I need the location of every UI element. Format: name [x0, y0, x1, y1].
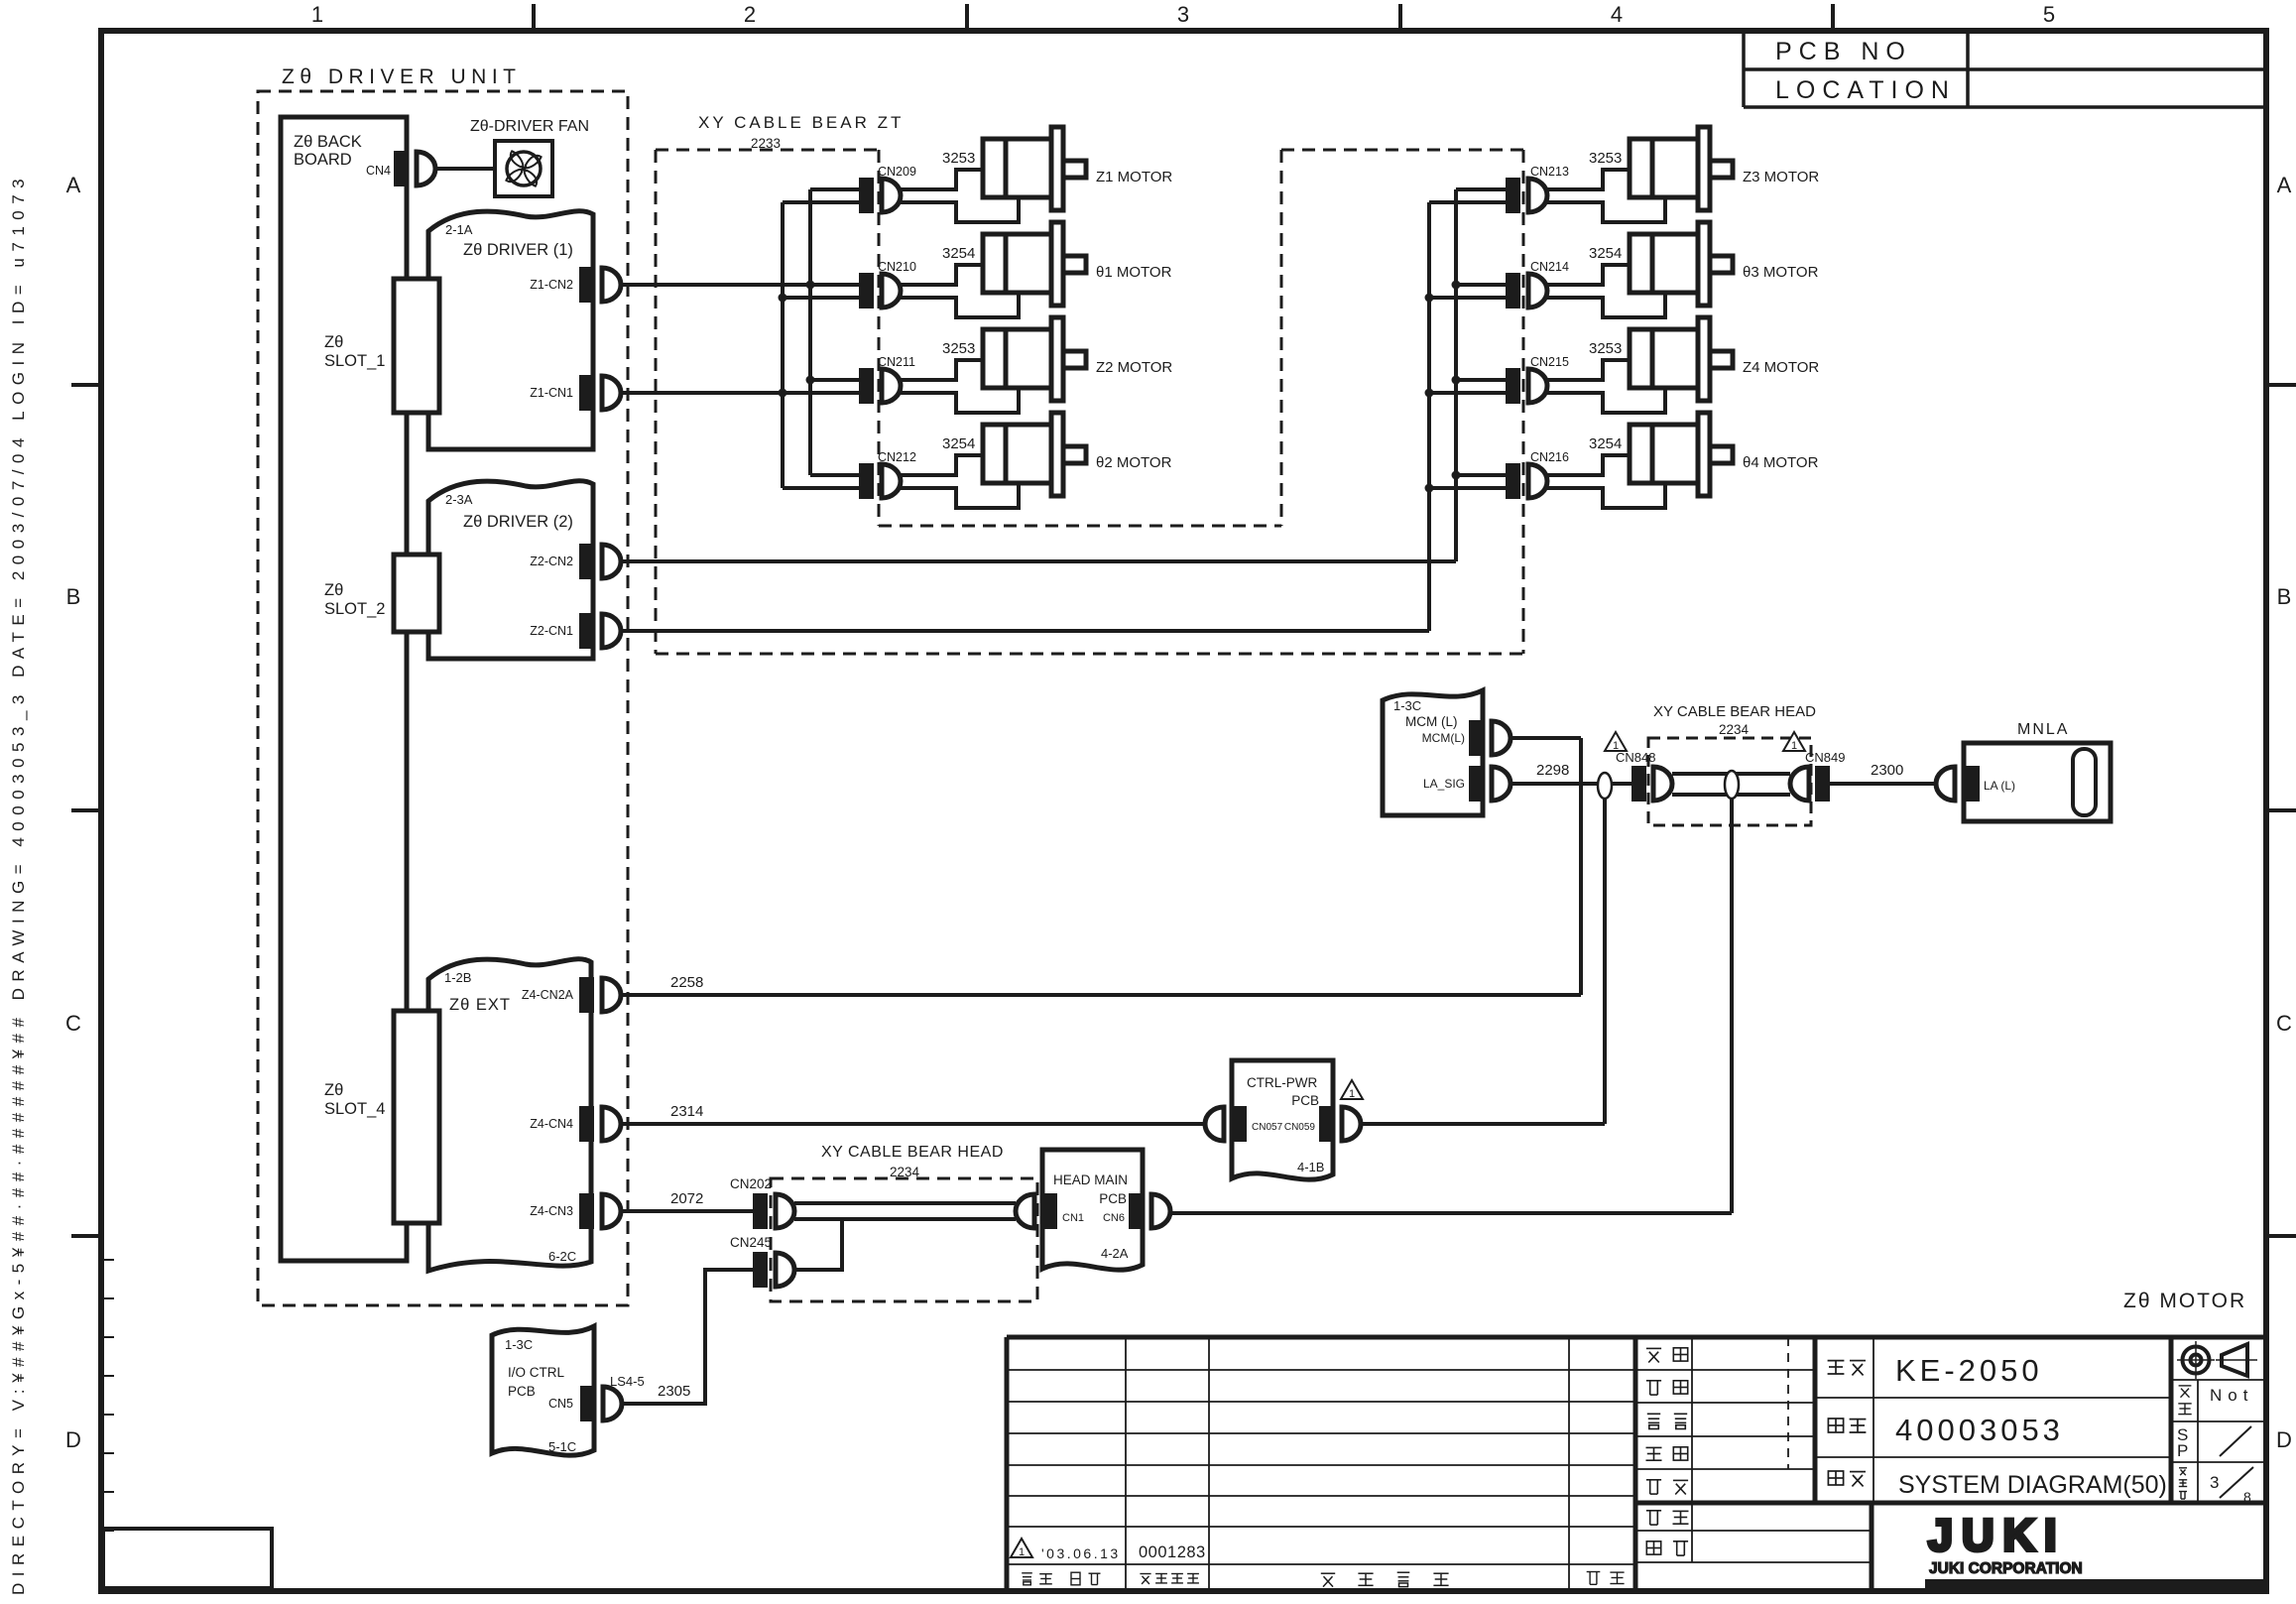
- svg-text:Z2-CN1: Z2-CN1: [530, 624, 573, 638]
- svg-text:XY CABLE BEAR ZT: XY CABLE BEAR ZT: [698, 113, 904, 132]
- svg-text:CN849: CN849: [1805, 750, 1845, 765]
- svg-text:6-2C: 6-2C: [548, 1249, 576, 1264]
- svg-text:JUKI CORPORATION: JUKI CORPORATION: [1929, 1560, 2083, 1577]
- svg-text:3254: 3254: [1589, 245, 1622, 262]
- svg-text:MNLA: MNLA: [2017, 721, 2069, 738]
- svg-text:3254: 3254: [942, 245, 975, 262]
- svg-text:CN057: CN057: [1252, 1122, 1283, 1133]
- svg-text:Zθ: Zθ: [324, 1081, 343, 1099]
- svg-text:CN1: CN1: [1062, 1212, 1084, 1224]
- svg-text:CN4: CN4: [366, 164, 391, 178]
- svg-text:CN214: CN214: [1530, 260, 1569, 274]
- svg-text:I/O CTRL: I/O CTRL: [508, 1365, 564, 1380]
- svg-text:LS4-5: LS4-5: [610, 1374, 645, 1389]
- svg-text:1-2B: 1-2B: [444, 970, 471, 985]
- svg-text:A: A: [66, 173, 81, 197]
- svg-text:Zθ BACK: Zθ BACK: [294, 133, 362, 151]
- svg-text:θ4 MOTOR: θ4 MOTOR: [1743, 454, 1819, 471]
- svg-text:CN5: CN5: [548, 1397, 573, 1411]
- svg-text:SLOT_2: SLOT_2: [324, 600, 385, 618]
- svg-text:3253: 3253: [1589, 340, 1622, 357]
- svg-text:CN848: CN848: [1616, 750, 1655, 765]
- svg-text:HEAD MAIN: HEAD MAIN: [1053, 1172, 1128, 1187]
- svg-text:1-3C: 1-3C: [1393, 698, 1421, 713]
- svg-text:8: 8: [2243, 1489, 2251, 1505]
- svg-text:40003053: 40003053: [1895, 1413, 2064, 1447]
- svg-text:θ3 MOTOR: θ3 MOTOR: [1743, 264, 1819, 281]
- svg-text:Z2 MOTOR: Z2 MOTOR: [1096, 359, 1172, 376]
- svg-text:Z4-CN3: Z4-CN3: [530, 1204, 573, 1218]
- svg-text:0001283: 0001283: [1139, 1543, 1206, 1561]
- svg-text:MCM(L): MCM(L): [1422, 731, 1465, 745]
- svg-text:3253: 3253: [942, 150, 975, 167]
- svg-text:Z4-CN4: Z4-CN4: [530, 1117, 573, 1131]
- svg-text:2: 2: [744, 2, 756, 27]
- svg-text:Zθ: Zθ: [324, 333, 343, 351]
- svg-text:3: 3: [2210, 1473, 2219, 1492]
- svg-text:'03.06.13: '03.06.13: [1041, 1545, 1121, 1561]
- svg-text:A: A: [2277, 173, 2292, 197]
- svg-text:3: 3: [1177, 2, 1189, 27]
- svg-text:2300: 2300: [1871, 762, 1903, 779]
- svg-text:CN059: CN059: [1284, 1122, 1316, 1133]
- svg-text:1: 1: [311, 2, 323, 27]
- svg-text:SLOT_1: SLOT_1: [324, 352, 385, 370]
- svg-text:2-1A: 2-1A: [445, 222, 473, 237]
- svg-text:Zθ MOTOR: Zθ MOTOR: [2123, 1290, 2246, 1312]
- svg-text:1-3C: 1-3C: [505, 1337, 533, 1352]
- svg-text:Zθ EXT: Zθ EXT: [449, 996, 511, 1014]
- svg-text:Zθ: Zθ: [324, 581, 343, 599]
- svg-text:D: D: [2276, 1427, 2292, 1452]
- svg-text:Z4-CN2A: Z4-CN2A: [522, 988, 574, 1002]
- svg-text:B: B: [66, 584, 81, 609]
- svg-text:3254: 3254: [1589, 435, 1622, 452]
- svg-text:1: 1: [1019, 1546, 1025, 1558]
- svg-text:Z4 MOTOR: Z4 MOTOR: [1743, 359, 1819, 376]
- svg-text:1: 1: [1349, 1088, 1355, 1100]
- svg-text:B: B: [2277, 584, 2292, 609]
- svg-text:BOARD: BOARD: [294, 151, 352, 169]
- svg-text:3253: 3253: [1589, 150, 1622, 167]
- svg-text:MCM (L): MCM (L): [1405, 714, 1458, 729]
- svg-text:XY CABLE BEAR HEAD: XY CABLE BEAR HEAD: [1653, 703, 1816, 720]
- svg-text:Not: Not: [2210, 1386, 2253, 1405]
- svg-text:5: 5: [2043, 2, 2055, 27]
- svg-text:P: P: [2177, 1441, 2188, 1460]
- svg-text:4-1B: 4-1B: [1297, 1160, 1324, 1174]
- svg-text:SLOT_4: SLOT_4: [324, 1100, 385, 1118]
- svg-text:Z1-CN2: Z1-CN2: [530, 278, 573, 292]
- svg-text:Z3 MOTOR: Z3 MOTOR: [1743, 169, 1819, 185]
- svg-text:Z2-CN2: Z2-CN2: [530, 555, 573, 568]
- svg-text:Zθ DRIVER (2): Zθ DRIVER (2): [463, 513, 573, 531]
- svg-text:SYSTEM DIAGRAM(50): SYSTEM DIAGRAM(50): [1898, 1471, 2167, 1499]
- svg-text:CN245: CN245: [730, 1235, 772, 1250]
- svg-text:2314: 2314: [670, 1103, 703, 1120]
- svg-text:θ2 MOTOR: θ2 MOTOR: [1096, 454, 1172, 471]
- svg-text:3253: 3253: [942, 340, 975, 357]
- svg-text:2-3A: 2-3A: [445, 492, 473, 507]
- svg-text:3254: 3254: [942, 435, 975, 452]
- svg-text:LA_SIG: LA_SIG: [1423, 777, 1465, 791]
- svg-text:CN213: CN213: [1530, 165, 1569, 179]
- svg-text:PCB NO: PCB NO: [1775, 38, 1912, 65]
- svg-text:2258: 2258: [670, 974, 703, 991]
- svg-text:KE-2050: KE-2050: [1895, 1353, 2043, 1388]
- svg-text:2298: 2298: [1536, 762, 1569, 779]
- svg-text:1: 1: [1791, 740, 1797, 752]
- svg-text:D: D: [65, 1427, 81, 1452]
- svg-text:4-2A: 4-2A: [1101, 1246, 1129, 1261]
- svg-text:PCB: PCB: [1291, 1093, 1319, 1108]
- svg-text:CTRL-PWR: CTRL-PWR: [1247, 1075, 1317, 1090]
- svg-text:CN216: CN216: [1530, 450, 1569, 464]
- svg-text:C: C: [2276, 1011, 2292, 1036]
- svg-text:Zθ-DRIVER FAN: Zθ-DRIVER FAN: [470, 118, 589, 135]
- svg-text:Zθ DRIVER (1): Zθ DRIVER (1): [463, 241, 573, 259]
- svg-text:2234: 2234: [1719, 722, 1750, 737]
- svg-text:CN6: CN6: [1103, 1212, 1125, 1224]
- svg-text:JUKI: JUKI: [1928, 1510, 2066, 1560]
- svg-text:XY CABLE BEAR HEAD: XY CABLE BEAR HEAD: [821, 1144, 1004, 1161]
- svg-text:DIRECTORY= V:¥##¥Gx-5¥##·##·##: DIRECTORY= V:¥##¥Gx-5¥##·##·######¥## DR…: [9, 173, 28, 1595]
- svg-text:CN202: CN202: [730, 1176, 772, 1191]
- svg-text:5-1C: 5-1C: [548, 1439, 576, 1454]
- svg-text:C: C: [65, 1011, 81, 1036]
- svg-text:LOCATION: LOCATION: [1775, 76, 1956, 104]
- svg-text:CN215: CN215: [1530, 355, 1569, 369]
- svg-text:LA (L): LA (L): [1984, 779, 2015, 793]
- svg-text:Z1-CN1: Z1-CN1: [530, 386, 573, 400]
- svg-text:θ1 MOTOR: θ1 MOTOR: [1096, 264, 1172, 281]
- svg-text:Z1 MOTOR: Z1 MOTOR: [1096, 169, 1172, 185]
- svg-text:PCB: PCB: [1099, 1191, 1127, 1206]
- svg-text:2072: 2072: [670, 1190, 703, 1207]
- svg-text:4: 4: [1611, 2, 1623, 27]
- svg-text:2305: 2305: [658, 1383, 690, 1400]
- svg-text:PCB: PCB: [508, 1384, 536, 1399]
- svg-text:Zθ DRIVER UNIT: Zθ DRIVER UNIT: [282, 65, 522, 88]
